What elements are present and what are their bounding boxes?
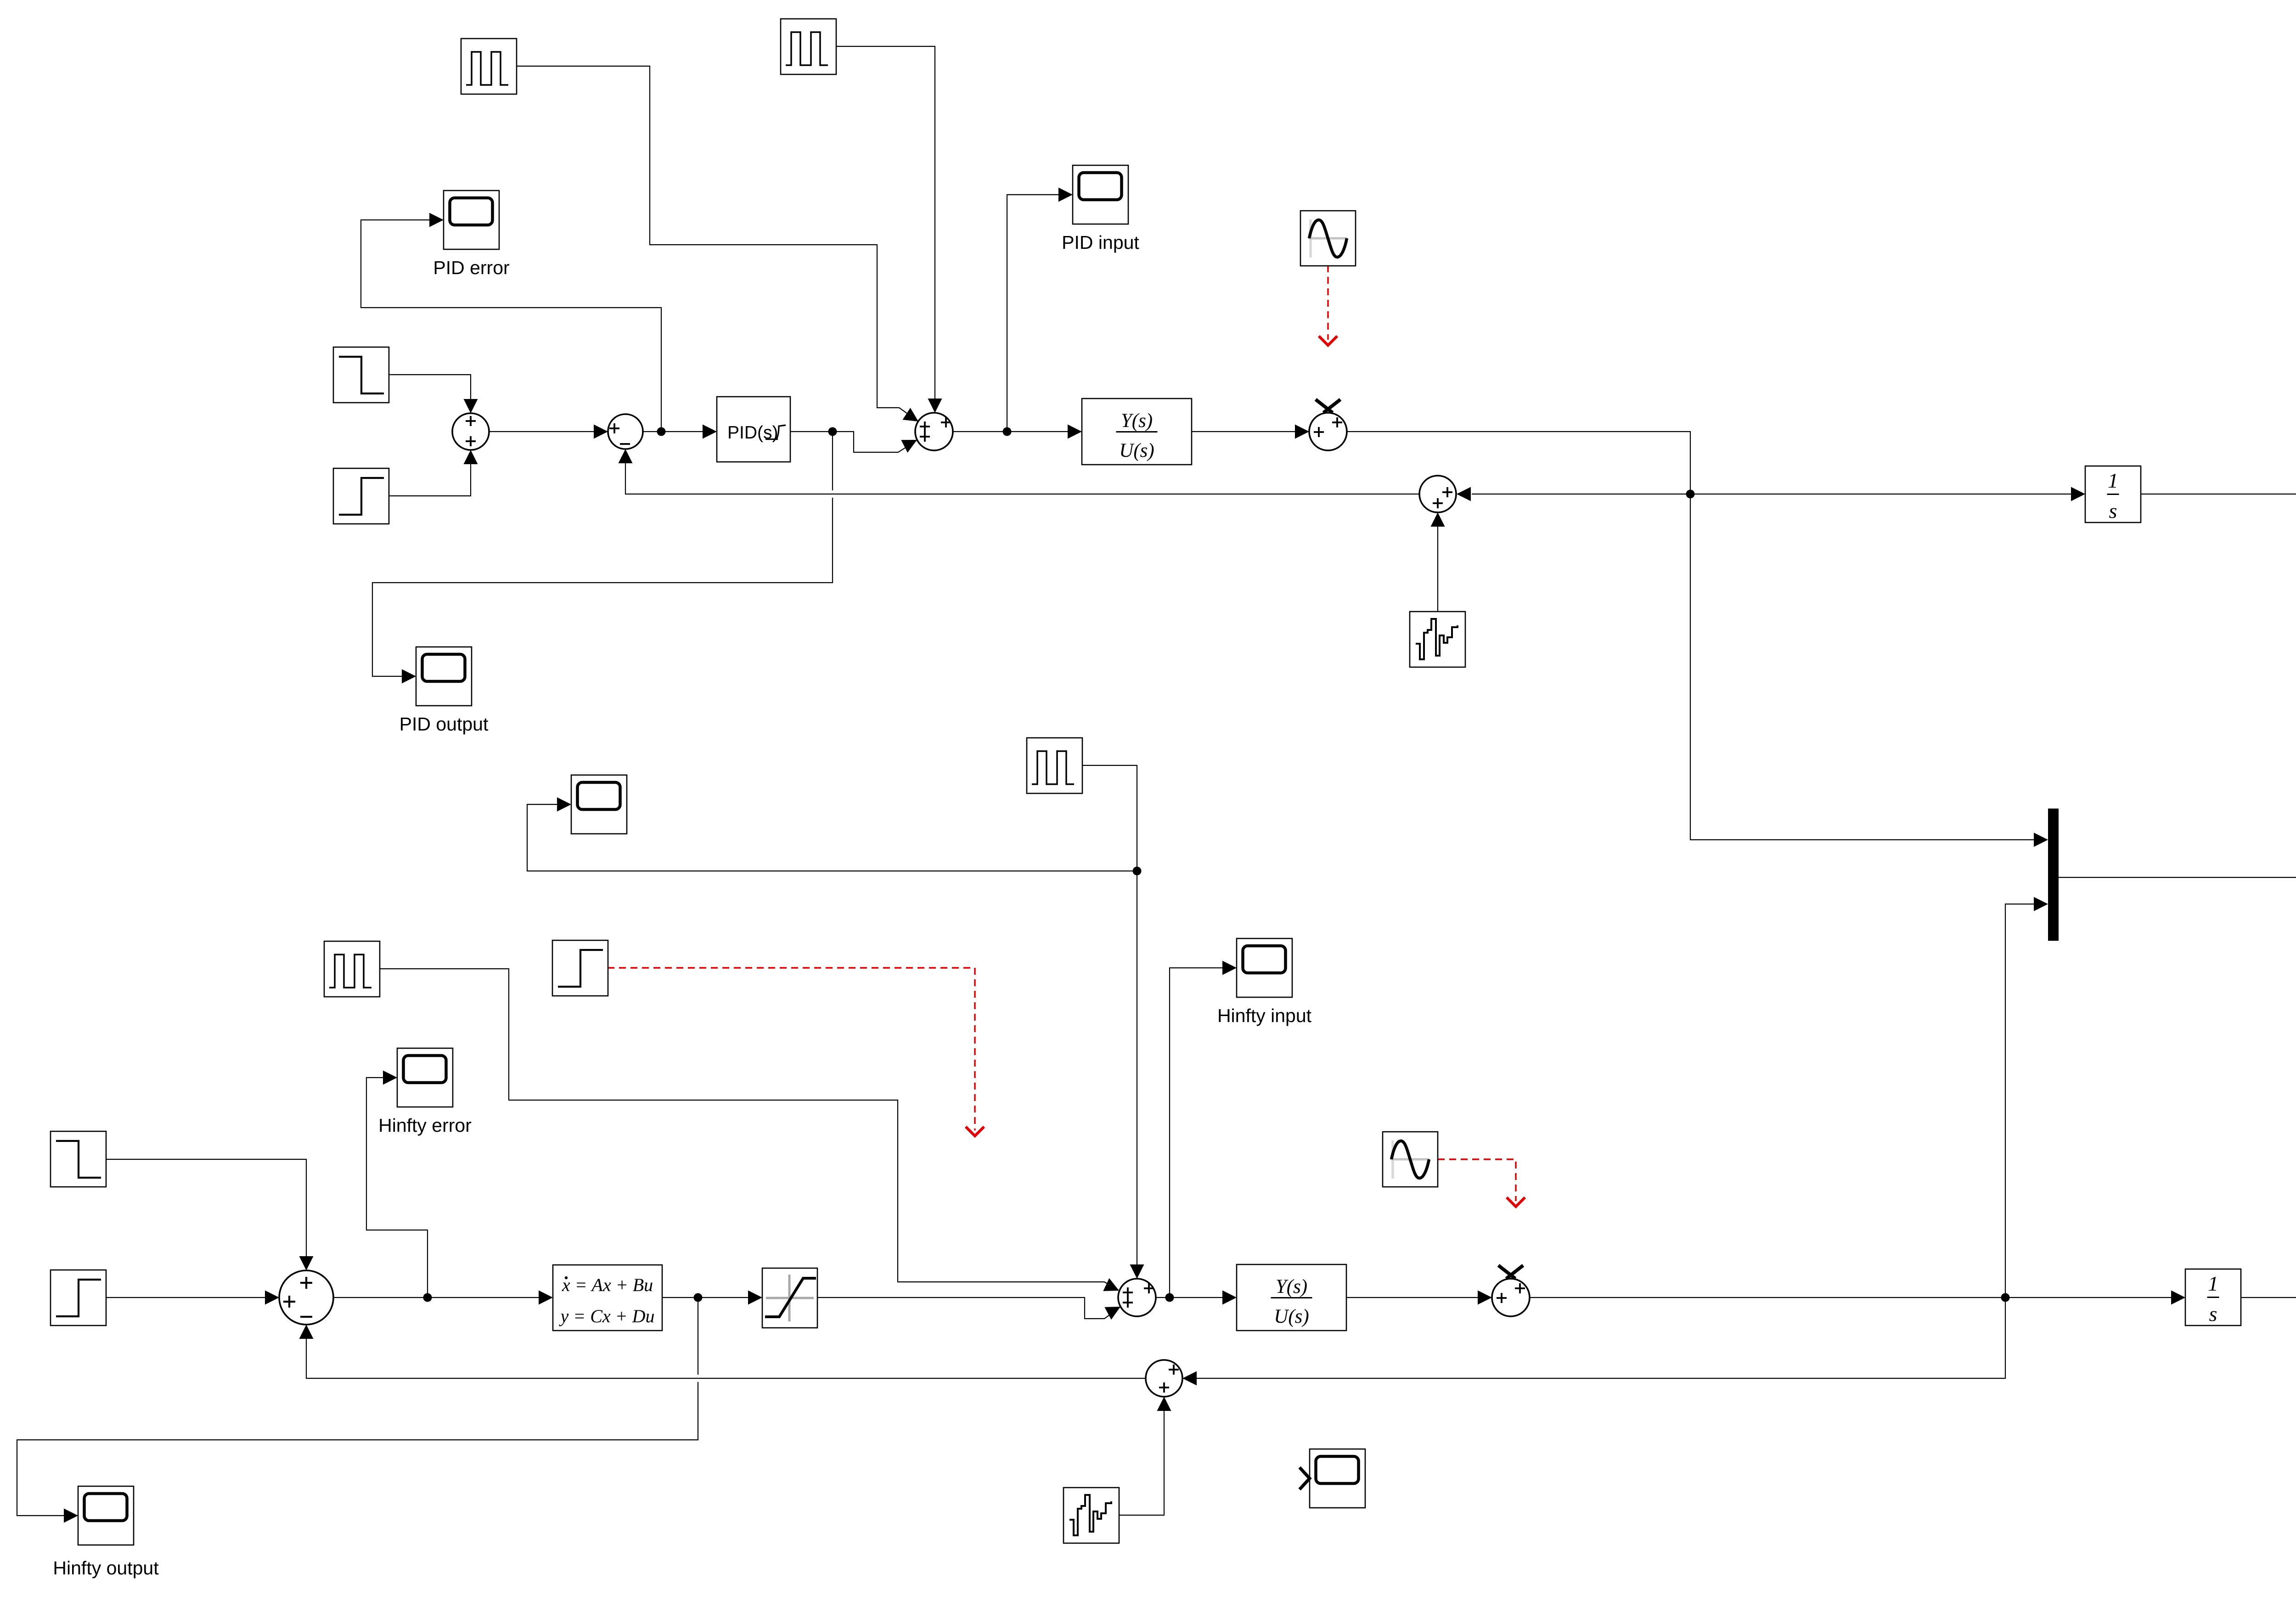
- svg-text:PID output: PID output: [400, 713, 489, 735]
- svg-text:PID error: PID error: [433, 257, 509, 278]
- svg-text:U(s): U(s): [1119, 440, 1154, 461]
- svg-text:Hinfty error: Hinfty error: [378, 1115, 472, 1136]
- svg-text:y = Cx + Du: y = Cx + Du: [558, 1306, 654, 1326]
- svg-text:Y(s): Y(s): [1276, 1276, 1307, 1298]
- svg-text:Hinfty input: Hinfty input: [1217, 1005, 1312, 1026]
- svg-text:Y(s): Y(s): [1121, 410, 1153, 432]
- svg-text:Hinfty output: Hinfty output: [53, 1557, 159, 1579]
- svg-text:s: s: [2209, 1302, 2217, 1326]
- svg-text:PID input: PID input: [1062, 232, 1139, 253]
- svg-text:1: 1: [2208, 1272, 2218, 1295]
- svg-text:U(s): U(s): [1274, 1306, 1309, 1327]
- svg-text:s: s: [2109, 499, 2117, 522]
- svg-text:1: 1: [2108, 469, 2118, 492]
- svg-text:x = Ax + Bu: x = Ax + Bu: [562, 1275, 653, 1295]
